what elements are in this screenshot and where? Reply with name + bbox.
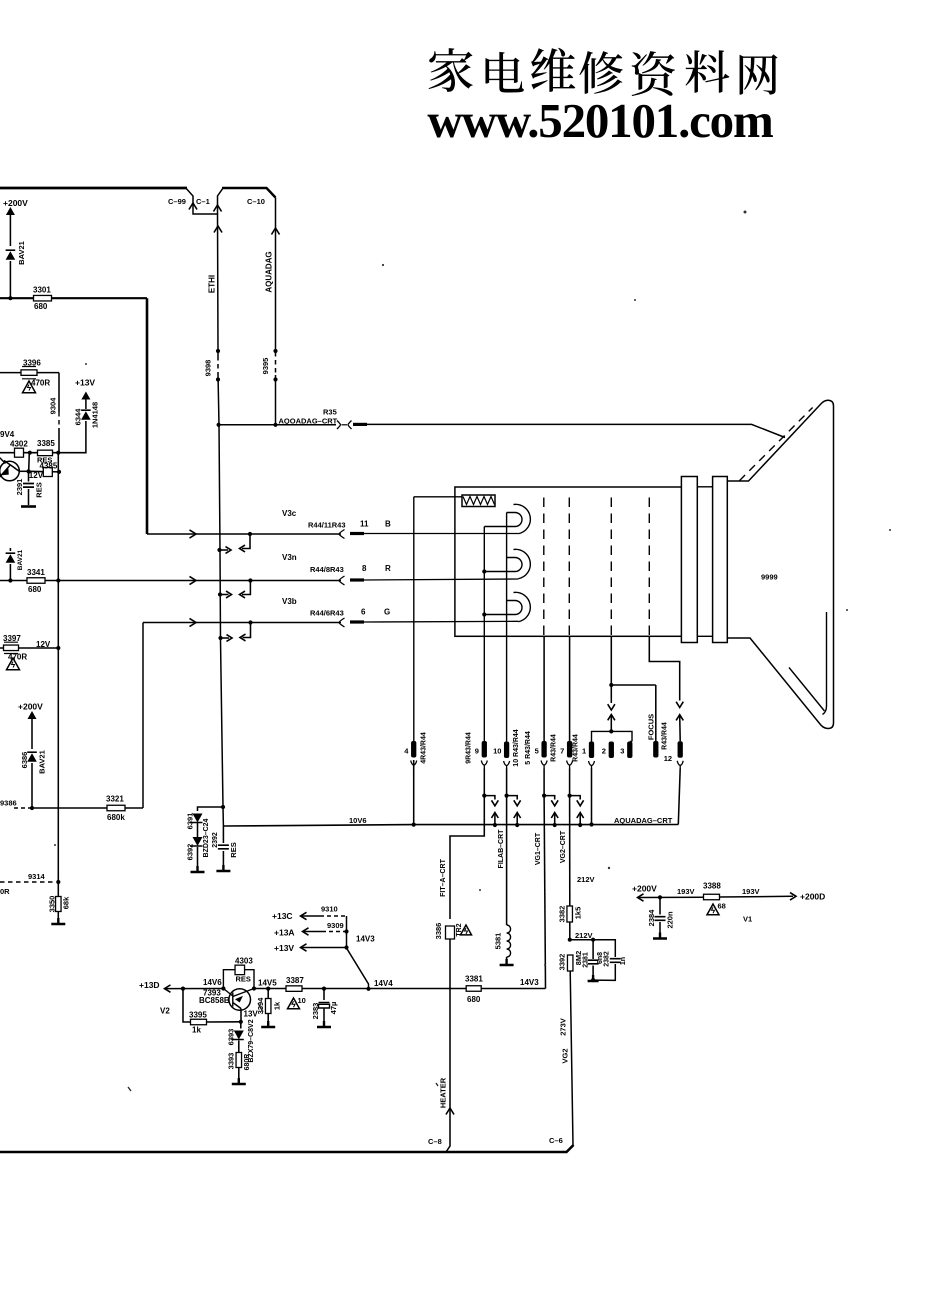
wire 3393 to ground (238, 1068, 240, 1085)
warning triangle TR2 (461, 925, 472, 935)
junction pin9 connector branch (482, 794, 486, 798)
svg-text:2383: 2383 (311, 1003, 320, 1020)
junction ETHI tap V3n (218, 592, 222, 596)
svg-text:FIT–A–CRT: FIT–A–CRT (440, 858, 447, 896)
ground below 2392 (216, 865, 230, 871)
CRT gun B cathode tube (507, 513, 522, 527)
wire 14V5 rail (254, 988, 546, 990)
ground below 5381 (500, 959, 514, 965)
arrow left +13V mid (301, 944, 307, 951)
svg-text:470R: 470R (31, 379, 50, 388)
wire cap branch bottom (593, 964, 615, 980)
svg-text:C–1: C–1 (196, 197, 210, 206)
junction zener branch (221, 805, 225, 809)
svg-text:2381: 2381 (583, 952, 590, 968)
svg-text:680k: 680k (107, 813, 125, 822)
svg-text:10 R43/R44: 10 R43/R44 (513, 729, 520, 766)
arrow +200V lower (28, 711, 37, 719)
wire 9386 dashed (14, 807, 34, 809)
svg-text:3350: 3350 (47, 896, 56, 913)
header logo: Chinese calligraphy 家电维修资料网 (429, 48, 778, 96)
wire pin4 lower (413, 760, 415, 825)
wire FIT-A-CRT route (450, 796, 484, 919)
arrow left V3c step (240, 545, 246, 552)
svg-text:3387: 3387 (286, 976, 304, 985)
svg-text:HEATER: HEATER (438, 1077, 447, 1108)
scan noise specks (decorative) (54, 211, 891, 967)
wire grid pin5 solid (543, 636, 545, 741)
arrow down pin9 connector (491, 800, 498, 806)
wire +13V to diode 6344 (85, 399, 87, 409)
wire pin10 connector branch (507, 796, 518, 800)
svg-text:3386: 3386 (434, 923, 443, 940)
svg-text:ETHI: ETHI (207, 275, 216, 293)
CRT socket pin bar pin 7 (567, 741, 572, 758)
svg-text:1k: 1k (192, 1026, 201, 1035)
junction gun G leg (482, 612, 486, 616)
wire V3b connector step down (243, 623, 251, 638)
svg-text:2: 2 (602, 747, 606, 756)
wire pin5 connector branch (544, 796, 555, 800)
svg-text:9398: 9398 (203, 360, 212, 377)
wire diode to node (9, 261, 11, 298)
wire 2383 to ground (323, 1008, 325, 1027)
svg-text:VG2–CRT: VG2–CRT (560, 830, 567, 863)
arrow up on ETHI wire (214, 226, 222, 233)
wire rail to cap 2392 (222, 826, 224, 843)
wire 9309 dashed (322, 931, 347, 933)
svg-text:5: 5 (535, 747, 539, 756)
wire +200V to 6386 (31, 719, 33, 749)
wire base bias branch (183, 989, 190, 1022)
diode 6385 BAV21 partial (6, 553, 16, 563)
wire pin9 connector to rail (494, 813, 496, 826)
svg-text:VG2: VG2 (560, 1048, 569, 1063)
junction 2383 tap (322, 987, 326, 991)
wire 10V6 rail (223, 825, 678, 827)
wire pin3 stub (630, 741, 632, 743)
junction pins123 bracket (609, 729, 613, 733)
svg-text:R44/11R43: R44/11R43 (308, 521, 346, 530)
CRT socket pin bar pin 2 (609, 742, 614, 759)
board border top segment to C-10 (222, 188, 276, 198)
svg-text:C–6: C–6 (549, 1136, 563, 1145)
svg-text:273V: 273V (558, 1018, 567, 1036)
arrow up on C-1 wire in notch (213, 205, 221, 212)
svg-text:9386: 9386 (0, 799, 17, 808)
wire pin2 connector upper shaft (610, 685, 612, 703)
warning triangle at 3396 (23, 381, 36, 393)
wire ETHI tap stub V3b (221, 637, 230, 639)
wire pin7 upper drop (569, 769, 571, 796)
wire pin12 lower (678, 769, 680, 825)
junction cap bottom (591, 978, 595, 982)
junction pin7 rail tap (578, 823, 582, 827)
wire partial diode stem (9, 548, 11, 551)
fusible resistor 3386 (446, 926, 455, 939)
socket cup pin 1 (589, 761, 595, 769)
feedback loop with resistor 4303 (223, 970, 254, 989)
wire +13V feed (302, 947, 347, 949)
arrow up on AQUADAG wire (271, 228, 279, 235)
svg-text:5381: 5381 (493, 933, 502, 950)
CRT socket pin bar pin 4 (411, 741, 416, 758)
arrow up heater (446, 1108, 454, 1115)
svg-text:3392: 3392 (557, 954, 566, 971)
arrow left +13D (165, 985, 171, 992)
svg-text:6: 6 (361, 608, 366, 617)
junction V3n at connector step (248, 578, 252, 582)
arrow on V3n wire (190, 576, 197, 584)
junction V3c at connector step (248, 532, 252, 536)
junction 9314 node (56, 880, 60, 884)
wire +200V to diode 6301 (9, 215, 11, 246)
CRT gun R grid cup arc (514, 549, 531, 578)
svg-text:9: 9 (475, 747, 479, 756)
connector V3b plug (339, 618, 345, 627)
wire 3394 drop (267, 989, 269, 998)
svg-text:1n: 1n (620, 957, 627, 965)
svg-text:+13C: +13C (272, 911, 293, 921)
wire 9304 vertical upper (58, 373, 60, 412)
svg-text:4385: 4385 (40, 462, 58, 471)
junction node 3301 left (8, 296, 12, 300)
svg-text:+13V: +13V (75, 378, 95, 388)
wire zener branch (198, 807, 224, 811)
CRT socket pin bar pin 5 (541, 741, 546, 758)
svg-text:9395: 9395 (261, 358, 270, 375)
svg-text:V3b: V3b (282, 597, 297, 606)
wire ETHI tap stub V3c (220, 549, 229, 551)
wire pin2-focus link (611, 684, 656, 686)
svg-text:www.520101.com: www.520101.com (427, 93, 773, 148)
wire 3385 row (30, 452, 59, 454)
wire pin10 vertical in neck (506, 513, 508, 742)
CRT gun G grid cup arc (514, 592, 531, 621)
arrow down pin7 connector (577, 800, 584, 806)
CRT socket pin bar pin 1 (589, 742, 594, 759)
svg-text:680: 680 (28, 585, 42, 594)
junction 3341 left (8, 578, 12, 582)
junction gun R leg (482, 569, 486, 573)
box component 4385 (43, 468, 52, 477)
svg-text:212V: 212V (575, 931, 593, 940)
wire anode link (219, 424, 276, 426)
svg-text:+200D: +200D (800, 892, 825, 902)
capacitor 2392 RES (218, 845, 229, 849)
wire focus lower shaft (679, 715, 682, 742)
wire 6344 to 3385 node (58, 421, 86, 453)
wire 12V bus vertical (57, 453, 59, 882)
svg-text:0R: 0R (0, 887, 10, 896)
socket cup pin 9 (481, 761, 487, 769)
resistor 3385 (38, 450, 53, 456)
wire VG2 to border (567, 971, 573, 1152)
wire 3396 row (0, 372, 59, 374)
junction pin4 rail (412, 823, 416, 827)
junction dash bottom AQUADAG (273, 377, 277, 381)
resistor 3397 trimmer ticks (4, 642, 18, 653)
junction pin2 node (609, 683, 613, 687)
svg-text:FOCUS: FOCUS (646, 714, 655, 740)
junction dash top AQUADAG (273, 349, 277, 353)
wire grid pin7 solid (569, 636, 571, 741)
wire 9310 solid (302, 915, 320, 917)
wire collector to zener (240, 1022, 242, 1029)
wire 6386 to row (31, 763, 33, 808)
zener 6393 BZX79-C8V2 (231, 1031, 244, 1040)
socket cup pin 5 (541, 761, 547, 769)
wire 9314 dashed (0, 881, 56, 883)
wire pin10 upper drop (506, 769, 508, 796)
junction pin7 connector branch (568, 794, 572, 798)
arrow +13V supply (81, 392, 90, 400)
socket cup pin 12 (677, 761, 683, 769)
svg-text:V3n: V3n (282, 553, 297, 562)
svg-text:11: 11 (360, 520, 369, 529)
board border bottom edge with C-6 corner (0, 1145, 574, 1152)
arrow +200V supply top (6, 207, 15, 215)
junction dash top ETHI (216, 349, 220, 353)
resistor 3382 (567, 906, 573, 922)
wire pin1 lower (591, 769, 593, 825)
scan pen marks (decorative) (128, 1003, 438, 1091)
wire cap branch top (570, 940, 616, 957)
wire grid pin2 solid (610, 636, 612, 685)
connector V3n plug (339, 576, 345, 585)
CRT socket pin bar pin 10 (504, 742, 509, 759)
board border C-99/C-1 notch (187, 189, 223, 214)
svg-text:3397: 3397 (3, 634, 21, 643)
wire ETHI dashed section 9398 (217, 356, 219, 374)
resistor 3381 (466, 986, 481, 992)
wire grid electrode dashed x649.3 (648, 498, 650, 637)
svg-text:4303: 4303 (235, 957, 253, 966)
arrow down pin10 connector (514, 800, 521, 806)
arrow right ETHI tap V3b (227, 635, 233, 642)
wire 5381 to ground (506, 957, 508, 965)
svg-text:3381: 3381 (465, 975, 483, 984)
svg-text:R: R (385, 564, 391, 573)
svg-text:3385: 3385 (37, 439, 55, 448)
ground below 2384 (653, 933, 667, 939)
junction +13V tap (344, 945, 348, 949)
wire 3397 row (0, 647, 58, 649)
junction 3394 tap (266, 987, 270, 991)
capacitor 2382 1n (610, 959, 621, 963)
wire 14V3 riser (347, 916, 369, 989)
svg-text:R44/6R43: R44/6R43 (310, 609, 344, 618)
svg-text:3: 3 (620, 747, 624, 756)
wire zener to 3393 (238, 1041, 240, 1053)
junction +13D node (181, 987, 185, 991)
wire 2392 to ground (222, 851, 224, 871)
wire VG2-CRT route (569, 796, 571, 906)
junction pin10 connector branch (505, 794, 509, 798)
wire anode inter-plug (342, 424, 348, 426)
svg-text:6344: 6344 (73, 408, 82, 426)
arrow up pin7 connector (577, 813, 584, 819)
wire V3c to CRT cathode (364, 533, 518, 535)
svg-text:3393: 3393 (226, 1053, 235, 1070)
svg-text:3382: 3382 (557, 906, 566, 923)
wire grid electrode dashed x611.3 (610, 498, 612, 637)
wire pin7 connector branch (570, 796, 581, 800)
junction 2384 tap (658, 895, 662, 899)
junction bus at 3397 row (56, 646, 60, 650)
wire grid electrode dashed x569.3 (568, 498, 570, 637)
arrow left V3b step (240, 634, 246, 641)
junction 212V node (568, 938, 572, 942)
transistor 7393 BC858B (223, 989, 254, 1011)
CRT deflection band 1 (681, 477, 697, 643)
connector V3c plug (339, 530, 345, 539)
svg-text:12V: 12V (36, 640, 51, 649)
wire between zeners (197, 823, 199, 837)
svg-text:5 R43/R44: 5 R43/R44 (525, 731, 532, 765)
svg-text:470R: 470R (8, 653, 27, 662)
svg-text:6386: 6386 (20, 752, 29, 769)
wire 6385 to 3341 node (9, 564, 11, 581)
CRT gun G cathode tube (507, 601, 522, 615)
arrow left +13C (301, 912, 307, 919)
wire grid focus route (649, 636, 679, 700)
wire 2384 to ground (659, 922, 661, 939)
CRT gun B grid cup arc (514, 504, 531, 533)
svg-text:C–10: C–10 (247, 197, 265, 206)
box resistor 4303 RES (235, 965, 245, 975)
wire pin7 connector to rail (579, 813, 581, 826)
wire ETHI vertical lower part (218, 374, 223, 826)
wire 3395 to collector node (207, 1021, 241, 1023)
wire V3c connector step down (242, 534, 250, 549)
resistor 3341 (27, 578, 45, 584)
svg-text:+13A: +13A (274, 928, 295, 938)
svg-text:FILAB–CRT: FILAB–CRT (498, 829, 505, 869)
svg-text:220n: 220n (665, 911, 674, 929)
svg-text:1: 1 (582, 747, 586, 756)
CRT bell inner glass edge lines (789, 612, 827, 715)
socket cup pin 10 (504, 761, 510, 769)
wire 9314 node to 3350 (57, 882, 59, 896)
arrow up focus lower (676, 715, 683, 721)
resistor 3397 (4, 645, 19, 651)
wire V3n to CRT cathode (364, 579, 518, 580)
arrow up pin5 connector (551, 813, 558, 819)
junction 4302-3385 (28, 451, 32, 455)
svg-text:+200V: +200V (18, 702, 43, 712)
svg-text:680: 680 (34, 302, 48, 311)
resistor 3395 (191, 1019, 207, 1025)
diode 6301 BAV21 (6, 250, 16, 260)
svg-text:V2: V2 (160, 1007, 170, 1016)
header char 修 (579, 51, 622, 94)
svg-text:3301: 3301 (33, 286, 51, 295)
ground below caps (588, 975, 599, 981)
resistor 3321 (107, 805, 125, 811)
wire transistor to node (19, 470, 28, 472)
wire V3b riser (142, 623, 144, 809)
svg-text:10: 10 (493, 747, 501, 756)
ground below 3350 (51, 918, 65, 924)
arrow left +13A (303, 928, 309, 935)
CRT bell outline (727, 400, 833, 728)
junction 14V4 node (366, 987, 370, 991)
wire bell dashed coating (739, 408, 812, 481)
wire 2383 drop (323, 989, 325, 1000)
svg-text:BAV21: BAV21 (17, 241, 26, 265)
svg-text:R35: R35 (323, 408, 337, 417)
wire FILAB-CRT route (506, 796, 508, 925)
arrow right ETHI tap V3c (226, 547, 232, 554)
resistor 3393 (236, 1053, 242, 1068)
wire gun R tube bottom leg (484, 571, 507, 573)
svg-text:14V3: 14V3 (520, 978, 539, 987)
wire pin9 vertical in neck (483, 527, 485, 742)
junction 6386 row (30, 806, 34, 810)
inductor 5381 (507, 925, 511, 957)
svg-text:2391: 2391 (15, 479, 24, 496)
resistor 3392 (567, 955, 573, 971)
ground below 2383 (317, 1021, 331, 1027)
wire collector drop (240, 1009, 242, 1022)
svg-text:+13V: +13V (274, 943, 294, 953)
svg-text:9999: 9999 (761, 573, 778, 582)
wire node link vertical (28, 453, 31, 472)
resistor 3388 (704, 894, 720, 900)
svg-text:9314: 9314 (28, 872, 46, 881)
svg-text:BAV21: BAV21 (17, 549, 24, 570)
capacitor 2381 6n8 (588, 960, 599, 964)
svg-text:1k: 1k (272, 1001, 281, 1010)
wire heater feed (414, 496, 462, 498)
arrow down focus route (676, 702, 683, 708)
wire AQUADAG vertical from C-10 (275, 198, 277, 353)
wire zener to ground (197, 847, 199, 872)
header char 料 (686, 50, 730, 93)
svg-text:R43/R44: R43/R44 (551, 734, 558, 762)
wire 9304 dashed (58, 412, 60, 428)
wire 3350 to ground (57, 912, 59, 925)
svg-text:9V4: 9V4 (0, 430, 15, 439)
svg-text:10: 10 (298, 996, 306, 1005)
wire AQUADAG vertical lower (275, 375, 277, 425)
wire AQUADAG dashed section 9395 (275, 352, 277, 375)
wire thick vertical to V3c (146, 298, 149, 534)
arrow down pin2 connector (608, 704, 615, 710)
svg-text:680R: 680R (244, 1054, 251, 1071)
header char 维 (531, 48, 575, 92)
svg-text:3388: 3388 (703, 882, 721, 891)
CRT deflection band 2 (713, 477, 728, 643)
capacitor 2391 RES (23, 484, 34, 488)
junction 4385 right (57, 470, 61, 474)
svg-text:7: 7 (560, 747, 564, 756)
wire ETHI tap stub V3n (220, 594, 229, 596)
svg-text:680: 680 (467, 995, 481, 1004)
junction pin5 rail tap (553, 823, 557, 827)
svg-text:6393: 6393 (226, 1029, 235, 1046)
wire 193V row (639, 896, 704, 898)
box component 4302 (15, 448, 24, 457)
ground below zeners (191, 866, 205, 872)
resistor 3396 (21, 370, 37, 376)
wire to capacitor 2391 (28, 471, 30, 481)
thick dash V3c (350, 532, 364, 535)
svg-text:6392: 6392 (185, 844, 194, 861)
wire 3388 to +200D (720, 895, 794, 898)
arrow up pin9 connector (491, 813, 498, 819)
